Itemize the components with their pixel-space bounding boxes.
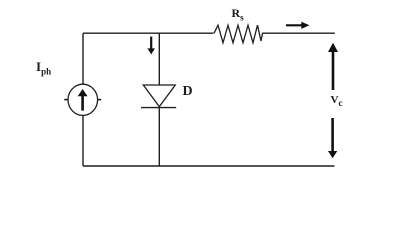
wire diode branch lower (158, 108, 160, 166)
current source U1 circle (68, 84, 98, 115)
resistor R1 zigzag (214, 25, 263, 43)
current source arrow up (78, 89, 88, 111)
label D (183, 85, 193, 99)
current source left tick (64, 99, 68, 101)
Vc arrow up (328, 43, 338, 90)
current source right tick (97, 99, 101, 101)
wire left rail upper (82, 33, 84, 84)
label Iph (36, 60, 51, 77)
label Vc (331, 95, 343, 108)
wire top rail right segment (262, 32, 335, 34)
Vc arrow down (328, 118, 337, 158)
wire diode branch upper (158, 33, 160, 85)
diode current arrow down (147, 37, 155, 55)
label Rs (232, 7, 244, 22)
diode D triangle (143, 85, 175, 107)
diode D cathode bar (141, 107, 176, 109)
output current arrow right (286, 22, 310, 29)
wire bottom rail (83, 165, 335, 167)
wire left rail lower (82, 115, 84, 166)
wire top rail left segment (83, 32, 214, 34)
